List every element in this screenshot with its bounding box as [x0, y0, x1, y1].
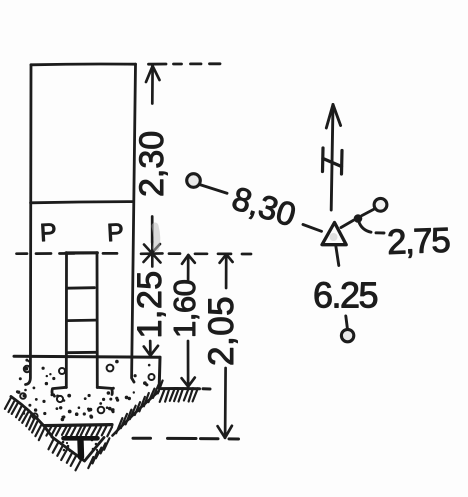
datum dashed line right of star — [169, 252, 251, 255]
earth hatching under pit right — [88, 438, 109, 468]
tick above bottom circle — [346, 316, 348, 328]
wall right edge — [132, 64, 136, 382]
north arrow head — [326, 105, 340, 129]
wall left edge — [26, 65, 32, 385]
svg-text:2,30: 2,30 — [133, 131, 171, 197]
svg-text:P: P — [39, 218, 57, 247]
foundation right edge — [158, 357, 162, 388]
dim 1,60 bottom shaft and arrow — [182, 341, 195, 387]
north arrow shaft — [331, 105, 333, 210]
ground level dash right — [203, 387, 210, 390]
pit V outline — [52, 437, 104, 461]
bedding layer top line — [44, 425, 112, 426]
letter N on north arrow — [323, 148, 343, 174]
sight line into triangle — [303, 225, 322, 232]
dim 2,05 bottom shaft and arrow — [218, 368, 232, 438]
pencil smudge near star — [155, 226, 157, 248]
post right rail — [96, 253, 99, 388]
post rung 1 — [67, 286, 95, 289]
svg-text:8,30: 8,30 — [228, 179, 300, 233]
svg-text:P: P — [106, 218, 124, 247]
line dot to circle — [362, 209, 375, 216]
pit stipple dots — [62, 439, 98, 452]
dim 2,30 top arrow — [146, 66, 160, 104]
leader hook for 2,75 — [359, 222, 371, 233]
svg-text:2,05: 2,05 — [202, 296, 241, 366]
survey point circle bottom — [341, 329, 353, 341]
post top bar — [66, 251, 97, 254]
dim 1,60 top arrow — [182, 255, 195, 280]
left earth hatching — [5, 398, 44, 441]
hatched bedding layer strokes — [46, 426, 112, 437]
wall divider line — [31, 202, 133, 203]
svg-text:1,25: 1,25 — [131, 270, 169, 338]
ground level line right — [161, 387, 200, 390]
datum star — [141, 241, 163, 267]
post left foot — [52, 387, 66, 394]
foundation stipple rings — [20, 365, 154, 419]
dim 2,30 lower shaft — [151, 217, 154, 243]
survey point circle left — [187, 174, 201, 188]
station triangle — [322, 223, 346, 245]
right slope earth hatching — [116, 381, 162, 434]
sight line triangle down — [336, 246, 339, 266]
datum dashed line through wall — [17, 252, 118, 255]
svg-text:6.25: 6.25 — [313, 275, 378, 316]
ground line hatching right — [160, 388, 198, 402]
svg-text:1,60: 1,60 — [167, 279, 202, 338]
post right foot — [97, 387, 112, 394]
dim 2,05 top arrow — [220, 254, 233, 288]
excavation slope line right — [113, 392, 159, 436]
sight line to left point — [200, 185, 227, 194]
svg-text:2,75: 2,75 — [386, 221, 449, 262]
post rung 3 — [67, 351, 97, 354]
earth hatching under pit left — [49, 439, 82, 471]
foundation stipple dots — [16, 359, 151, 422]
triangle pencil smudge — [330, 233, 338, 241]
foundation top line — [14, 356, 160, 357]
wall top line — [31, 63, 136, 67]
measured point dot — [354, 214, 363, 223]
top datum dashed line — [149, 62, 221, 65]
leader dash for 2,75 — [376, 231, 384, 234]
post rung 2 — [67, 319, 96, 322]
survey point circle right — [374, 198, 387, 211]
earth boundary left — [11, 397, 52, 437]
post (ladder) left rail — [65, 253, 68, 388]
bottom datum dashed line — [133, 437, 239, 441]
anchor T in pit — [64, 438, 98, 457]
dim 1,25 bottom arrow — [144, 341, 158, 356]
sight line triangle to dot — [341, 220, 354, 227]
